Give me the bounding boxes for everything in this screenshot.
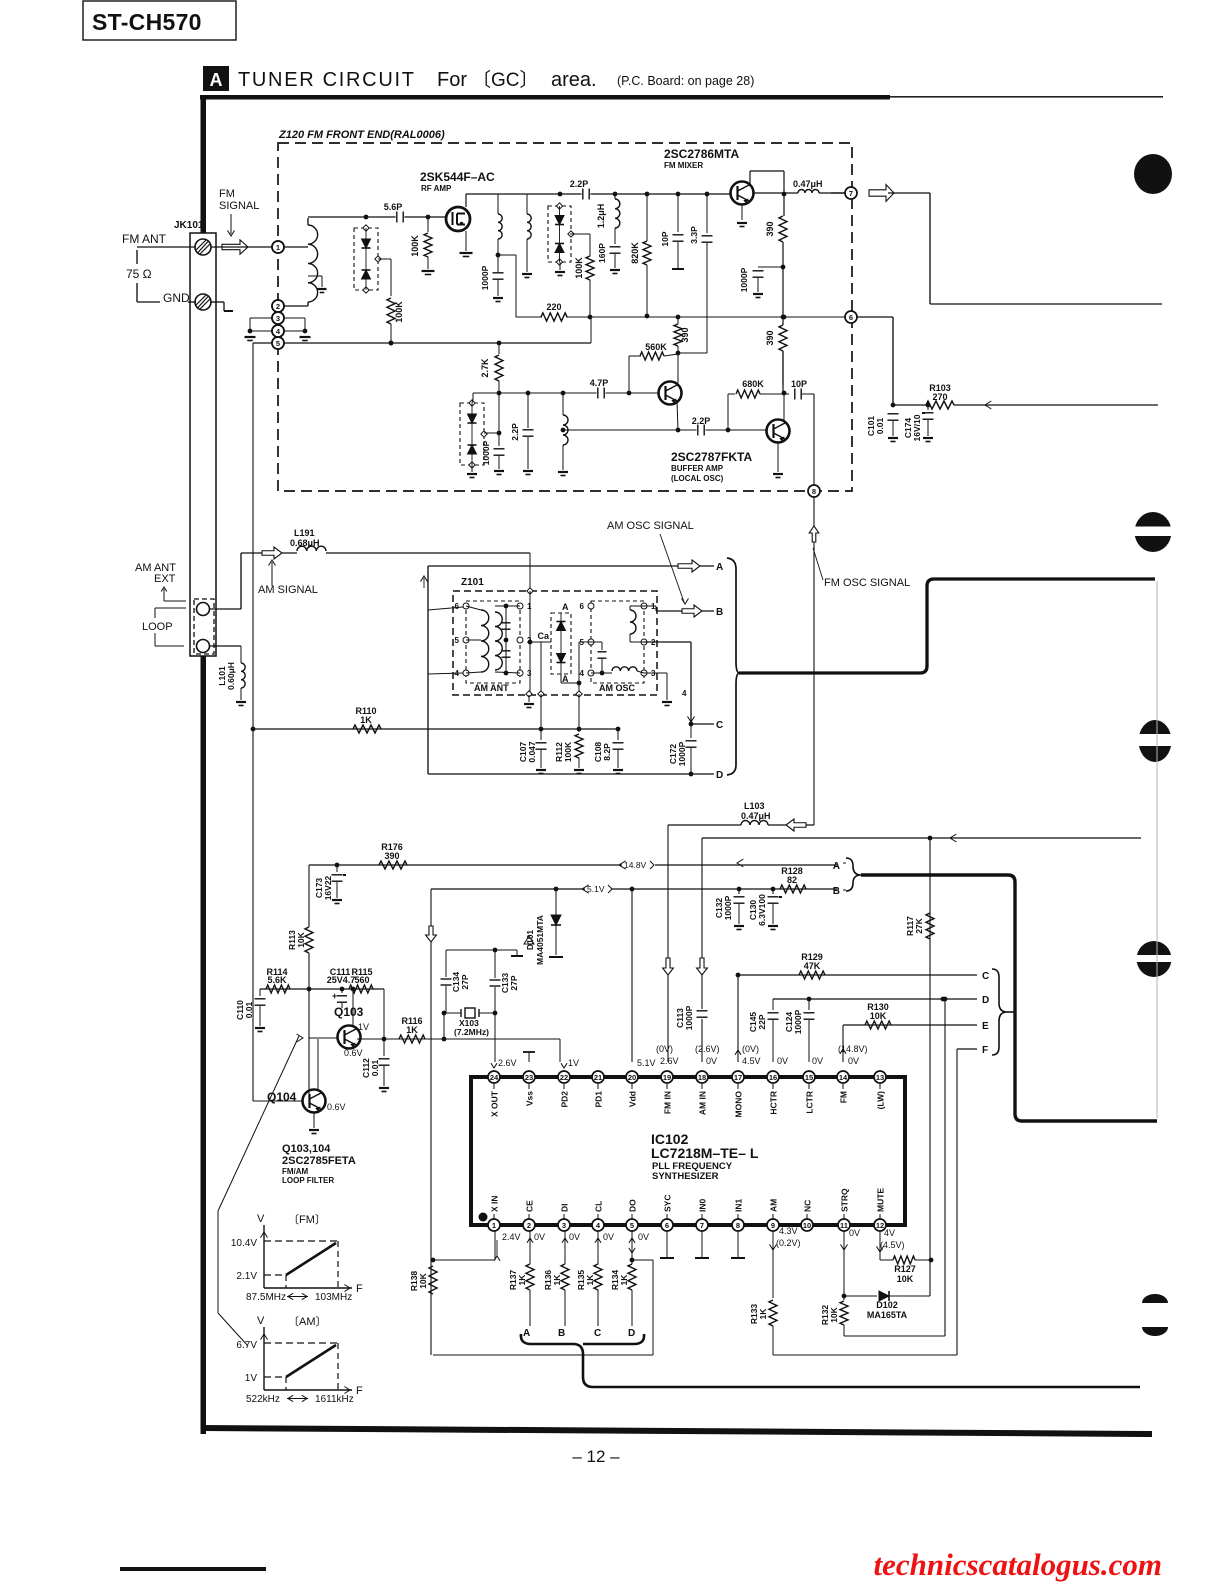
svg-text:17: 17 [734, 1073, 742, 1082]
svg-text:4.7P: 4.7P [590, 378, 609, 388]
svg-text:6: 6 [455, 602, 460, 611]
svg-text:0V: 0V [812, 1056, 823, 1066]
svg-text:1K: 1K [360, 715, 372, 725]
svg-text:27P: 27P [509, 975, 519, 990]
svg-text:87.5MHz: 87.5MHz [246, 1292, 286, 1303]
svg-text:10K: 10K [296, 931, 306, 947]
svg-text:5: 5 [276, 339, 280, 348]
svg-text:A: A [562, 602, 569, 612]
svg-text:220: 220 [546, 302, 561, 312]
svg-text:AM OSC: AM OSC [599, 683, 636, 693]
svg-text:Z101: Z101 [461, 577, 484, 588]
svg-text:2: 2 [527, 1221, 531, 1230]
svg-text:16V22: 16V22 [323, 875, 333, 900]
svg-text:CL: CL [594, 1201, 604, 1212]
svg-text:A: A [716, 562, 723, 573]
svg-text:1000P: 1000P [684, 1005, 694, 1030]
svg-text:MONO: MONO [734, 1091, 744, 1118]
svg-text:TUNER CIRCUIT: TUNER CIRCUIT [238, 69, 416, 91]
svg-text:16V/10: 16V/10 [912, 414, 922, 441]
svg-text:22: 22 [560, 1073, 568, 1082]
svg-text:2.1V: 2.1V [236, 1271, 257, 1282]
svg-text:area.: area. [551, 69, 597, 91]
svg-text:0.6V: 0.6V [327, 1102, 346, 1112]
svg-text:5.6P: 5.6P [384, 202, 403, 212]
svg-text:FM/AM: FM/AM [282, 1167, 309, 1176]
svg-text:160P: 160P [597, 243, 607, 263]
svg-text:390: 390 [384, 851, 399, 861]
svg-text:1V: 1V [568, 1058, 579, 1068]
svg-text:0V: 0V [849, 1228, 860, 1238]
svg-text:10K: 10K [897, 1274, 914, 1284]
svg-text:D: D [628, 1328, 635, 1339]
svg-text:6.3V100: 6.3V100 [757, 894, 767, 926]
svg-text:4: 4 [682, 689, 687, 698]
svg-text:HCTR: HCTR [769, 1091, 779, 1115]
svg-text:75 Ω: 75 Ω [126, 267, 152, 281]
svg-text:0V: 0V [638, 1232, 649, 1242]
svg-text:GND: GND [163, 291, 190, 305]
svg-text:V: V [257, 1213, 265, 1225]
svg-text:23: 23 [525, 1073, 533, 1082]
svg-text:10K: 10K [418, 1272, 428, 1288]
svg-text:16: 16 [769, 1073, 777, 1082]
svg-text:21: 21 [594, 1073, 602, 1082]
svg-text:0V: 0V [569, 1232, 580, 1242]
svg-text:(LW): (LW) [876, 1091, 886, 1110]
svg-text:FM: FM [219, 188, 235, 200]
svg-text:100K: 100K [394, 301, 404, 323]
svg-text:AM OSC SIGNAL: AM OSC SIGNAL [607, 520, 694, 532]
svg-text:ST-CH570: ST-CH570 [92, 9, 202, 35]
svg-text:D: D [716, 770, 723, 781]
svg-text:1K: 1K [619, 1274, 629, 1286]
svg-text:SYNTHESIZER: SYNTHESIZER [652, 1171, 719, 1182]
svg-text:B: B [833, 886, 840, 897]
svg-text:19: 19 [663, 1073, 671, 1082]
svg-text:2: 2 [276, 302, 280, 311]
svg-text:47K: 47K [804, 961, 821, 971]
svg-text:STRQ: STRQ [840, 1188, 850, 1212]
svg-text:3: 3 [276, 314, 280, 323]
svg-text:4: 4 [455, 669, 460, 678]
svg-text:2.4V: 2.4V [502, 1232, 521, 1242]
svg-text:1000P: 1000P [793, 1009, 803, 1034]
svg-text:SYC: SYC [663, 1195, 673, 1212]
svg-text:22P: 22P [757, 1014, 767, 1029]
svg-text:103MHz: 103MHz [315, 1292, 352, 1303]
svg-text:(2.6V): (2.6V) [695, 1044, 720, 1054]
svg-text:V: V [257, 1315, 265, 1327]
svg-text:DO: DO [628, 1199, 638, 1212]
svg-text:9: 9 [771, 1221, 775, 1230]
svg-text:1K: 1K [758, 1308, 768, 1320]
svg-text:C: C [716, 720, 723, 731]
svg-text:15: 15 [805, 1073, 813, 1082]
svg-text:680K: 680K [742, 379, 764, 389]
svg-text:PD2: PD2 [560, 1091, 570, 1108]
svg-text:0.6V: 0.6V [344, 1048, 363, 1058]
svg-text:10K: 10K [829, 1306, 839, 1322]
svg-text:0.47μH: 0.47μH [741, 811, 771, 821]
svg-text:100K: 100K [563, 741, 573, 762]
svg-text:2.7K: 2.7K [480, 358, 490, 378]
svg-text:20: 20 [628, 1073, 636, 1082]
svg-text:L191: L191 [294, 528, 315, 538]
svg-text:2.2P: 2.2P [570, 179, 589, 189]
svg-text:technicscatalogus.com: technicscatalogus.com [874, 1547, 1162, 1582]
svg-text:1V: 1V [245, 1373, 258, 1384]
svg-text:14: 14 [839, 1073, 848, 1082]
svg-text:27K: 27K [914, 917, 924, 933]
svg-text:DI: DI [560, 1204, 570, 1213]
svg-text:0V: 0V [534, 1232, 545, 1242]
svg-text:F: F [356, 1385, 363, 1397]
svg-text:8: 8 [812, 487, 816, 496]
svg-text:390: 390 [680, 327, 690, 342]
svg-text:EXT: EXT [154, 573, 176, 585]
svg-text:(0V): (0V) [742, 1044, 759, 1054]
svg-text:5: 5 [630, 1221, 634, 1230]
svg-text:D: D [982, 995, 989, 1006]
svg-text:FM OSC SIGNAL: FM OSC SIGNAL [824, 577, 910, 589]
svg-text:FM IN: FM IN [663, 1091, 673, 1114]
svg-text:(0V): (0V) [656, 1044, 673, 1054]
svg-text:24: 24 [490, 1073, 499, 1082]
svg-text:10P: 10P [791, 379, 807, 389]
svg-text:100K: 100K [574, 257, 584, 279]
svg-text:0.01: 0.01 [875, 417, 885, 434]
svg-text:1: 1 [276, 243, 280, 252]
svg-text:CE: CE [525, 1200, 535, 1212]
svg-text:PD1: PD1 [594, 1091, 604, 1108]
svg-text:1.2μH: 1.2μH [596, 204, 606, 229]
svg-text:5.6K: 5.6K [267, 975, 287, 985]
svg-text:2SK544F–AC: 2SK544F–AC [420, 170, 495, 184]
svg-text:2SC2786MTA: 2SC2786MTA [664, 147, 739, 161]
svg-text:NC: NC [803, 1200, 813, 1212]
svg-text:C: C [594, 1328, 601, 1339]
svg-text:25V4.7: 25V4.7 [327, 975, 356, 985]
svg-text:Vdd: Vdd [628, 1091, 638, 1107]
svg-text:AM SIGNAL: AM SIGNAL [258, 584, 318, 596]
svg-text:1: 1 [527, 602, 532, 611]
svg-text:560K: 560K [645, 342, 667, 352]
svg-text:1K: 1K [585, 1274, 595, 1286]
svg-text:270: 270 [932, 392, 947, 402]
svg-text:Q104: Q104 [267, 1090, 297, 1104]
svg-text:0.47μH: 0.47μH [793, 179, 823, 189]
svg-text:2SC2785FETA: 2SC2785FETA [282, 1155, 356, 1167]
svg-text:B: B [716, 607, 723, 618]
svg-text:BUFFER AMP: BUFFER AMP [671, 464, 724, 473]
svg-text:2.2P: 2.2P [510, 423, 520, 441]
svg-text:1: 1 [492, 1221, 496, 1230]
svg-text:(7.2MHz): (7.2MHz) [454, 1027, 489, 1037]
svg-text:2.6V: 2.6V [498, 1058, 517, 1068]
svg-text:10.4V: 10.4V [231, 1238, 257, 1249]
svg-text:1000P: 1000P [739, 267, 749, 292]
svg-text:〔AM〕: 〔AM〕 [288, 1315, 327, 1328]
svg-text:LCTR: LCTR [805, 1091, 815, 1114]
svg-text:1K: 1K [406, 1025, 418, 1035]
svg-text:IN0: IN0 [698, 1199, 708, 1213]
svg-text:(P.C. Board: on page 28): (P.C. Board: on page 28) [617, 74, 754, 88]
svg-text:3: 3 [562, 1221, 566, 1230]
svg-text:820K: 820K [630, 242, 640, 264]
svg-text:7: 7 [849, 189, 853, 198]
svg-text:0.01: 0.01 [244, 1001, 254, 1018]
svg-text:MA165TA: MA165TA [867, 1310, 908, 1320]
svg-text:– 12 –: – 12 – [572, 1447, 620, 1466]
svg-text:FM: FM [839, 1091, 849, 1103]
svg-text:Vss: Vss [525, 1091, 535, 1106]
svg-text:1000P: 1000P [677, 741, 687, 766]
svg-text:AM ANT: AM ANT [474, 683, 509, 693]
svg-text:Z120 FM FRONT END(RAL0006): Z120 FM FRONT END(RAL0006) [278, 129, 445, 141]
svg-text:D102: D102 [876, 1300, 898, 1310]
svg-text:1K: 1K [552, 1274, 562, 1286]
svg-text:2.6V: 2.6V [660, 1056, 679, 1066]
svg-text:1000P: 1000P [723, 895, 733, 920]
svg-text:82: 82 [787, 875, 797, 885]
svg-text:10K: 10K [870, 1011, 887, 1021]
svg-text:6: 6 [665, 1221, 669, 1230]
svg-text:0V: 0V [706, 1056, 717, 1066]
svg-text:522kHz: 522kHz [246, 1394, 280, 1405]
svg-text:2: 2 [527, 636, 532, 645]
svg-text:390: 390 [765, 330, 775, 345]
svg-text:JK101: JK101 [174, 220, 204, 231]
svg-text:6: 6 [580, 602, 585, 611]
svg-text:A: A [523, 1328, 530, 1339]
svg-text:6: 6 [849, 313, 853, 322]
svg-text:LOOP FILTER: LOOP FILTER [282, 1176, 334, 1185]
svg-text:3.3P: 3.3P [689, 226, 699, 244]
svg-text:R127: R127 [894, 1264, 916, 1274]
svg-text:X IN: X IN [490, 1195, 500, 1212]
svg-text:4.5V: 4.5V [742, 1056, 761, 1066]
svg-text:B: B [558, 1328, 565, 1339]
svg-text:8.2P: 8.2P [602, 743, 612, 761]
svg-text:1000P: 1000P [481, 440, 491, 465]
svg-text:Ca: Ca [537, 631, 549, 641]
svg-text:0V: 0V [848, 1056, 859, 1066]
svg-text:1000P: 1000P [480, 265, 490, 290]
svg-text:F: F [982, 1045, 988, 1056]
svg-text:X OUT: X OUT [490, 1090, 500, 1117]
svg-text:1611kHz: 1611kHz [315, 1394, 354, 1405]
svg-text:18: 18 [698, 1073, 706, 1082]
svg-text:4.3V: 4.3V [779, 1226, 798, 1236]
svg-text:0V: 0V [603, 1232, 614, 1242]
svg-text:IN1: IN1 [734, 1199, 744, 1213]
svg-text:8: 8 [736, 1221, 740, 1230]
svg-text:For: For [437, 69, 467, 91]
svg-text:(4.5V): (4.5V) [880, 1240, 905, 1250]
svg-text:C: C [982, 971, 989, 982]
svg-text:F: F [356, 1283, 363, 1295]
svg-text:2.2P: 2.2P [692, 416, 711, 426]
svg-text:100K: 100K [410, 235, 420, 257]
svg-text:1K: 1K [517, 1274, 527, 1286]
svg-text:Q103,104: Q103,104 [282, 1143, 331, 1155]
svg-text:0.60μH: 0.60μH [226, 662, 236, 690]
svg-text:10P: 10P [660, 231, 670, 246]
svg-text:4: 4 [580, 669, 585, 678]
svg-text:MA4051MTA: MA4051MTA [535, 915, 545, 965]
svg-text:0.047: 0.047 [527, 741, 537, 763]
svg-text:SIGNAL: SIGNAL [219, 200, 259, 212]
svg-text:FM ANT: FM ANT [122, 232, 167, 246]
svg-text:LOOP: LOOP [142, 621, 173, 633]
svg-text:A: A [210, 70, 223, 90]
svg-text:11: 11 [840, 1221, 848, 1230]
svg-text:(0.2V): (0.2V) [776, 1238, 801, 1248]
svg-text:RF AMP: RF AMP [421, 184, 452, 193]
svg-text:E: E [982, 1021, 989, 1032]
svg-text:27P: 27P [460, 974, 470, 989]
svg-text:560: 560 [354, 975, 369, 985]
svg-text:3: 3 [527, 669, 532, 678]
svg-text:LC7218M–TE– L: LC7218M–TE– L [651, 1145, 759, 1161]
svg-text:(LOCAL OSC): (LOCAL OSC) [671, 474, 724, 483]
svg-text:0V: 0V [777, 1056, 788, 1066]
svg-text:14.8V: 14.8V [624, 860, 647, 870]
svg-text:L103: L103 [744, 801, 765, 811]
svg-text:+: + [332, 991, 337, 1001]
svg-text:390: 390 [765, 221, 775, 236]
svg-text:5: 5 [455, 636, 460, 645]
svg-text:〔FM〕: 〔FM〕 [288, 1213, 326, 1226]
svg-text:5.1V: 5.1V [587, 884, 605, 894]
svg-text:〔GC〕: 〔GC〕 [472, 69, 539, 91]
svg-text:4V: 4V [884, 1228, 895, 1238]
svg-text:A: A [833, 861, 840, 872]
svg-text:AM IN: AM IN [698, 1091, 708, 1115]
svg-text:1V: 1V [358, 1022, 369, 1032]
svg-text:0.01: 0.01 [370, 1059, 380, 1076]
svg-text:MUTE: MUTE [876, 1188, 886, 1212]
svg-text:Q103: Q103 [334, 1005, 364, 1019]
svg-text:FM MIXER: FM MIXER [664, 161, 703, 170]
svg-text:12: 12 [876, 1221, 884, 1230]
svg-text:2SC2787FKTA: 2SC2787FKTA [671, 450, 752, 464]
svg-text:AM: AM [769, 1199, 779, 1212]
svg-text:13: 13 [876, 1073, 884, 1082]
svg-text:10: 10 [803, 1221, 811, 1230]
svg-text:7: 7 [700, 1221, 704, 1230]
svg-text:5.1V: 5.1V [637, 1058, 656, 1068]
